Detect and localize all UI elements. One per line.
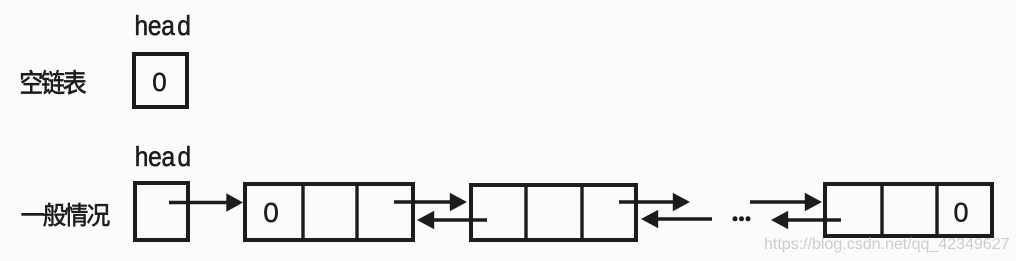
row1 label char '空' — [21, 70, 41, 94]
wire: node3 prev arrow shaft — [787, 218, 841, 222]
node1 divider 1 — [301, 184, 304, 240]
head pointer box (row 2) — [135, 183, 188, 240]
wire: node1 next arrow shaft — [394, 200, 451, 204]
empty-list head box — [134, 54, 187, 107]
wire: prev arrow shaft from ellipsis to node2 — [657, 217, 712, 221]
arrowhead: node2 next — [673, 193, 690, 211]
arrowhead: node3 prev — [771, 211, 788, 229]
svg-text:0: 0 — [152, 67, 166, 97]
wire: node2 prev arrow shaft — [433, 218, 487, 222]
text head (row 1) — [135, 10, 191, 42]
wire: head to node1 arrow shaft — [169, 201, 229, 205]
arrowhead: node1 next — [450, 193, 467, 211]
row1 label char '表' — [64, 70, 86, 94]
ellipsis dots — [733, 216, 751, 221]
node2 divider 2 — [580, 185, 583, 241]
arrowhead: next into node3 — [805, 193, 822, 211]
node2 divider 1 — [524, 185, 527, 241]
wire: node2 next arrow shaft — [619, 200, 674, 204]
arrowhead: node2 prev — [417, 211, 434, 229]
svg-text:0: 0 — [953, 198, 968, 228]
node3 divider 2 — [935, 184, 938, 236]
node3 outer box — [825, 184, 992, 236]
row2 label char '一' — [22, 213, 44, 215]
svg-text:https://blog.csdn.net/qq_42349: https://blog.csdn.net/qq_42349627 — [764, 236, 1010, 253]
svg-text:0: 0 — [263, 197, 279, 228]
text head (row 2) — [135, 141, 191, 173]
row2 label char '况' — [87, 204, 109, 226]
svg-text:head: head — [135, 141, 191, 173]
svg-text:head: head — [135, 10, 191, 42]
node1 divider 2 — [355, 184, 358, 240]
node2 outer box — [471, 185, 636, 240]
wire: next arrow shaft from ellipsis to node3 — [750, 200, 806, 204]
row2 label char '般' — [44, 203, 66, 227]
node3 divider 1 — [880, 184, 883, 236]
node1 outer box — [245, 184, 413, 240]
arrowhead: prev into node2 — [641, 210, 658, 228]
row2 label char '情' — [65, 203, 87, 226]
row1 label char '链' — [42, 70, 65, 94]
arrowhead: head to node1 — [226, 193, 243, 212]
